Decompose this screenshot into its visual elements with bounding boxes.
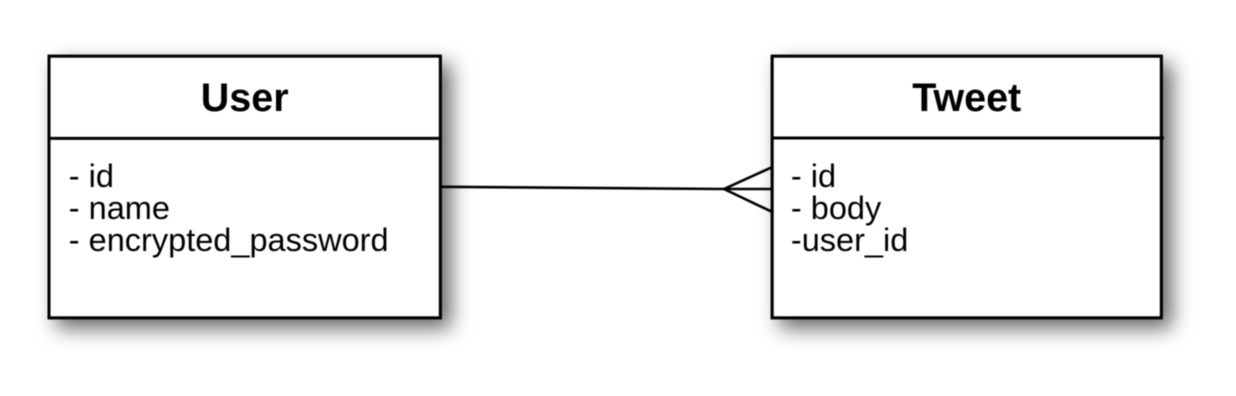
- svg-text:- body: - body: [791, 190, 882, 226]
- wire: association line User to Tweet: [442, 187, 724, 189]
- divider Tweet: [771, 137, 1164, 140]
- svg-text:User: User: [201, 76, 289, 120]
- entity Tweet box: [771, 56, 1164, 318]
- entity User box: [48, 56, 443, 318]
- svg-text:- name: - name: [69, 190, 170, 226]
- svg-text:- id: - id: [791, 158, 836, 194]
- divider User: [48, 137, 443, 140]
- crow's foot (many) at Tweet side: [724, 167, 772, 211]
- svg-text:- id: - id: [69, 158, 114, 194]
- svg-text:-user_id: -user_id: [791, 222, 908, 258]
- svg-text:- encrypted_password: - encrypted_password: [69, 222, 389, 258]
- svg-text:Tweet: Tweet: [912, 76, 1021, 120]
